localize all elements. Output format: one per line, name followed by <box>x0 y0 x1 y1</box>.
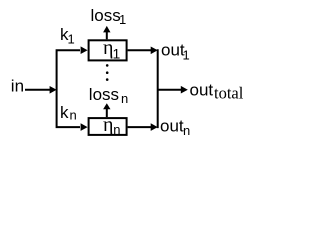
svg-text:in: in <box>11 76 24 95</box>
svg-text:η: η <box>103 114 113 136</box>
svg-text:n: n <box>113 122 120 137</box>
svg-text:loss: loss <box>91 6 121 25</box>
label out1 <box>161 41 190 63</box>
svg-text:1: 1 <box>183 48 190 63</box>
svg-text:loss: loss <box>89 85 119 104</box>
wire: right combiner bus <box>157 49 159 128</box>
wire: in arrow <box>25 86 57 94</box>
svg-text:1: 1 <box>113 45 121 61</box>
label eta1 <box>103 37 121 61</box>
svg-text:out: out <box>190 81 214 100</box>
svg-text:n: n <box>121 91 128 106</box>
label lossn <box>89 85 128 106</box>
arrow loss1 (up from box eta1) <box>103 26 110 39</box>
label kn <box>60 103 77 123</box>
svg-text:n: n <box>183 123 190 138</box>
svg-text:k: k <box>60 103 69 122</box>
svg-text:1: 1 <box>119 12 126 27</box>
svg-text:out: out <box>161 41 185 60</box>
wire: etan output to outn junction <box>128 123 158 131</box>
wire: kn branch arrowhead into box etan <box>81 123 88 131</box>
wire: out_total arrow <box>158 86 188 94</box>
wire: left splitter bus <box>57 50 80 127</box>
svg-text:out: out <box>160 117 184 136</box>
block etan box <box>89 118 127 135</box>
label k1 <box>60 25 75 47</box>
label etan <box>103 114 120 137</box>
label out_total <box>190 81 244 103</box>
svg-text:1: 1 <box>68 32 75 47</box>
label outn <box>160 117 190 139</box>
svg-text:total: total <box>214 84 244 103</box>
label loss1 <box>91 6 127 27</box>
wire: k1 branch arrowhead into box eta1 <box>81 46 88 54</box>
arrow lossn (up from box etan) <box>103 103 110 117</box>
dots: vertical ellipsis between blocks <box>106 64 109 81</box>
wire: eta1 output to out1 junction <box>128 47 158 55</box>
block eta1 box <box>89 40 127 60</box>
svg-text:n: n <box>70 108 77 123</box>
